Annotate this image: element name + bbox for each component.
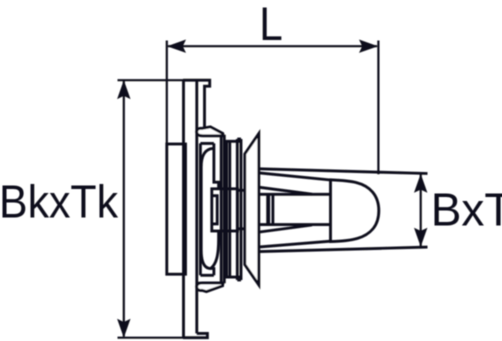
- leaf spring bow: [201, 148, 213, 268]
- dimension BkxTk top extension line: [118, 79, 185, 81]
- envelope line top: [260, 169, 428, 174]
- stem bottom rail: [224, 276, 241, 279]
- stem vertical d: [240, 139, 243, 280]
- stem vertical c: [236, 139, 239, 280]
- inner slant bottom: [260, 225, 312, 232]
- holder cone edge top: [260, 173, 331, 180]
- plate left edge: [182, 80, 185, 338]
- stem vertical b: [228, 141, 231, 277]
- lock plate left edge: [220, 135, 223, 284]
- glass bulb capsule: [331, 180, 379, 242]
- dimension BkxTk bottom extension line: [118, 337, 185, 339]
- dimension L line: [168, 45, 377, 47]
- plate right edge: [195, 80, 198, 333]
- flange wide box: [167, 144, 186, 274]
- neck bottom edge: [260, 223, 331, 226]
- funnel disk: [245, 134, 259, 285]
- holder cone edge bottom: [260, 241, 331, 247]
- plate top edge with tab: [183, 80, 210, 135]
- socket left box: [200, 143, 214, 275]
- hub to funnel top link: [238, 189, 248, 192]
- dimension BkxTk bottom arrow: [117, 319, 130, 338]
- dimension L right extension line: [377, 41, 379, 175]
- socket bottom edge: [198, 282, 225, 285]
- inner slant top: [260, 187, 312, 194]
- seal left edge: [266, 194, 270, 224]
- hub rectangle: [212, 189, 238, 231]
- top spring hook: [197, 127, 223, 136]
- svg-text:L: L: [259, 0, 283, 50]
- bottom spring hook: [197, 283, 223, 292]
- hub notch: [212, 196, 217, 224]
- hub to funnel bottom link: [238, 227, 248, 230]
- leaf spring bottom cap: [210, 231, 219, 275]
- dimension BxT line: [420, 175, 422, 247]
- leaf spring top cap: [214, 143, 219, 188]
- dimension BxT bottom arrow: [414, 228, 427, 247]
- stem bottom cap: [237, 279, 241, 282]
- svg-text:BkxTk: BkxTk: [0, 176, 119, 228]
- stem top cap: [237, 138, 241, 141]
- socket top edge: [205, 133, 225, 136]
- seal right edge: [271, 194, 274, 224]
- lock plate right edge: [223, 135, 226, 284]
- dimension L left arrow: [167, 40, 186, 53]
- stem top rail: [224, 140, 241, 143]
- dimension BkxTk top arrow: [117, 80, 130, 99]
- svg-text:BxT: BxT: [431, 183, 502, 235]
- dimension L right arrow: [359, 40, 378, 53]
- dimension L left extension line: [166, 41, 168, 145]
- neck top edge: [260, 193, 331, 196]
- plate bottom edge with tab: [183, 333, 207, 337]
- stem vertical a: [225, 141, 228, 277]
- envelope line bottom: [260, 247, 428, 252]
- dimension BkxTk line: [123, 81, 125, 337]
- dimension BxT top arrow: [414, 174, 427, 193]
